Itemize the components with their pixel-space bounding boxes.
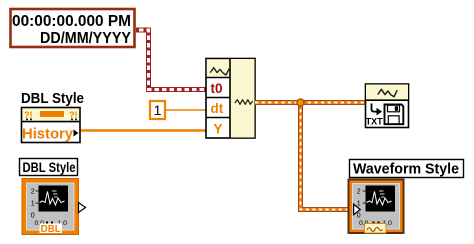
wire dt (orange scalar) — [166, 109, 206, 111]
svg-text:Y: Y — [214, 122, 223, 137]
svg-text:1: 1 — [357, 201, 361, 208]
svg-text:0: 0 — [31, 213, 35, 220]
mini chart plot — [366, 186, 396, 212]
svg-text:1: 1 — [31, 201, 35, 208]
waveform glyph header — [378, 89, 397, 97]
icon arrow — [372, 104, 378, 112]
svg-text:DBL Style: DBL Style — [21, 90, 84, 107]
svg-text:DD/MM/YYYY: DD/MM/YYYY — [40, 30, 131, 47]
Build Waveform node — [206, 59, 255, 139]
svg-text:?!: ?! — [24, 110, 33, 120]
Write to Measurement File node — [366, 84, 409, 128]
svg-text:t0: t0 — [211, 81, 223, 96]
waveform glyph in header cell — [210, 68, 229, 75]
svg-text:dt: dt — [211, 101, 224, 116]
svg-text:00:00:00.000 PM: 00:00:00.000 PM — [12, 13, 131, 30]
svg-text:2: 2 — [31, 189, 35, 196]
wire junction dot — [297, 99, 304, 106]
timestamp constant — [11, 9, 135, 47]
numeric constant 1 — [150, 101, 165, 119]
wire waveform main run to file writer (brown ladder) — [255, 100, 365, 105]
icon floppy disk — [385, 105, 404, 125]
input arrow — [354, 204, 361, 214]
svg-text:History: History — [22, 126, 74, 143]
svg-text:?!: ?! — [69, 110, 78, 120]
label Waveform Style — [350, 160, 464, 178]
svg-text:DBL: DBL — [41, 224, 61, 235]
bottom waveform type glyph — [365, 224, 387, 234]
waveform glyph output — [235, 100, 253, 105]
svg-text:0: 0 — [357, 213, 361, 220]
DBL type label — [40, 224, 63, 234]
svg-text:TXT: TXT — [366, 116, 384, 126]
mini chart plot — [39, 186, 69, 212]
wire t0 time-stamp (crimson ladder) — [136, 30, 206, 90]
waveform chart indicator terminal — [349, 180, 404, 234]
svg-text:Waveform Style: Waveform Style — [353, 161, 459, 178]
label DBL Style (chart terminal) — [20, 159, 78, 176]
wire waveform branch down to indicator (brown ladder) — [301, 103, 353, 210]
output arrow — [79, 203, 86, 213]
wire Y history array (orange) — [81, 129, 206, 131]
svg-text:DBL Style: DBL Style — [23, 159, 76, 175]
property node U1 (chart History) — [22, 108, 81, 143]
DBL chart indicator terminal — [22, 179, 86, 236]
svg-text:2: 2 — [357, 189, 361, 196]
svg-text:1: 1 — [154, 102, 162, 118]
